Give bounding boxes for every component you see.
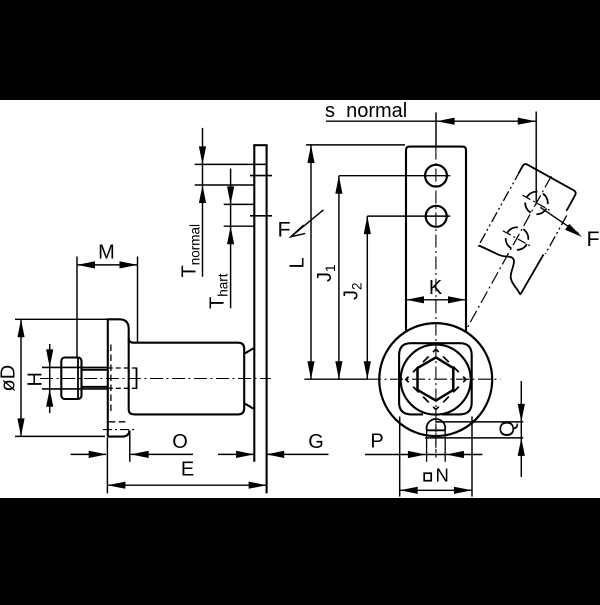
arm hole 2 [426,206,447,227]
svg-text:M: M [98,242,115,264]
flange outline [108,319,129,436]
plate tick hole1 level [250,175,272,177]
dimension L [310,145,312,379]
dimension Q [437,421,524,423]
dimension J2 [366,216,368,379]
label F right [540,207,578,233]
pawl slot hidden line [109,421,128,423]
svg-text:E: E [181,459,194,481]
black band top [0,0,600,100]
dimension T hart [230,169,232,309]
plate tick hole2 level [250,215,272,217]
rotated latch hook profile [479,246,544,295]
rotated latch phantom right edge [545,215,566,253]
arm vertical centerline [435,147,437,458]
svg-text:H: H [25,372,47,386]
screw shaft thread lines [82,369,108,371]
cylinder body [135,343,245,415]
rotated latch axis centerline [465,176,551,331]
rotated latch hole 1 [521,188,552,219]
dimension M [77,264,138,266]
rotated latch phantom left edge [478,170,520,246]
svg-text:P: P [370,431,383,453]
arm hole 1 [425,165,447,187]
svg-text:s normal: s normal [325,100,407,122]
rounded square housing [399,343,472,414]
dimension P [365,454,482,456]
svg-text:L: L [287,257,309,268]
dimension G [266,453,328,455]
lock arm front view [406,147,466,333]
screw head facet lines [42,366,108,368]
svg-text:F: F [278,217,291,241]
extension line top [306,144,405,146]
white drawing area [0,100,600,498]
black band bottom [0,498,600,600]
dimension E [107,484,266,486]
dimension square N [399,417,401,497]
extension flange left face [106,438,108,494]
dimension H [49,344,51,413]
screw hex head [61,358,81,400]
rotated latch hole 2 [502,223,533,254]
mounting plate side view [253,145,255,462]
horizontal centerline front view [304,378,368,380]
cylinder flare cone [245,348,254,353]
flange face arrow row1 [71,453,106,455]
dimension K [406,299,466,301]
centerline side view [40,378,271,380]
dimension oD [20,319,22,436]
rotated latch solid cap [514,163,577,211]
screw shaft hidden in body [108,367,137,369]
flange hidden hole line [110,345,112,413]
svg-text:G: G [308,431,324,453]
svg-text:O: O [172,431,188,453]
svg-text:øD: øD [0,365,20,392]
svg-text:F: F [587,227,600,251]
dimension T normal [202,128,204,277]
pawl slot centerline [103,429,135,431]
dimension O [131,453,193,455]
lock body circle [379,323,492,436]
dashed diamond square drive [406,349,466,409]
svg-text:Q: Q [496,421,519,437]
extension flange right face [129,431,131,462]
hexagon socket [418,357,454,400]
inner circle [401,345,471,415]
svg-text:N: N [436,465,449,486]
dimension J1 [338,176,340,380]
svg-text:K: K [429,277,443,299]
pawl tab [427,419,446,430]
